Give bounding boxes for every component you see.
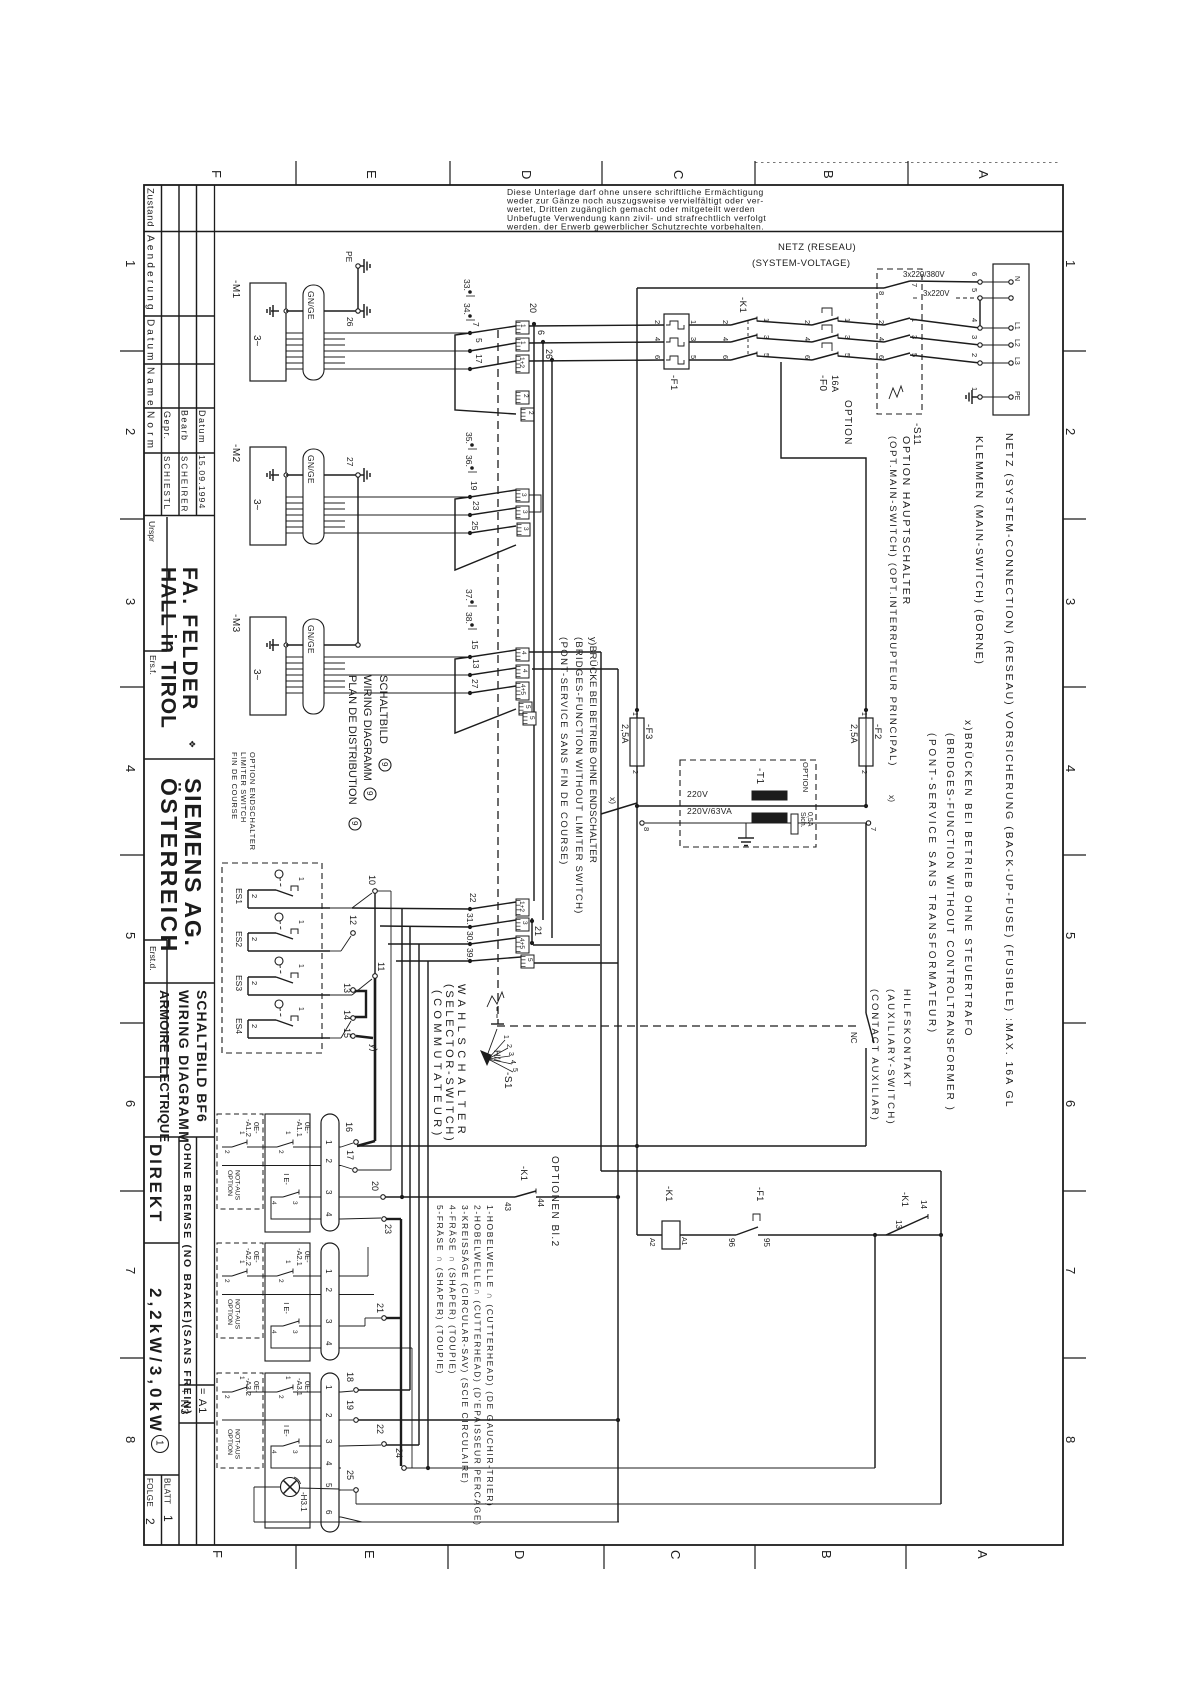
-A1.2 contact — [222, 1146, 232, 1148]
svg-text:20: 20 — [528, 303, 538, 313]
svg-text:2: 2 — [223, 1395, 230, 1399]
svg-text:3: 3 — [1063, 598, 1078, 605]
terminal bar 1 — [516, 321, 529, 334]
svg-text:HALL in TIROL: HALL in TIROL — [157, 567, 180, 729]
limit switch ES1 — [275, 870, 283, 878]
svg-text:werden. der Erwerb gewerbliche: werden. der Erwerb gewerblicher Schutzre… — [506, 221, 764, 231]
node 10 — [373, 889, 378, 894]
svg-text:Norm: Norm — [145, 411, 156, 452]
svg-text:2: 2 — [1063, 428, 1078, 435]
terminal bar 5 — [523, 712, 536, 725]
svg-text:12: 12 — [348, 915, 358, 925]
svg-text:14: 14 — [919, 1200, 928, 1209]
svg-text:4: 4 — [270, 1330, 277, 1334]
terminal 5 — [978, 296, 982, 300]
svg-text:7: 7 — [869, 827, 878, 831]
svg-text:Datum: Datum — [145, 319, 156, 363]
wires F0 to S11 — [838, 321, 884, 325]
svg-text:2: 2 — [522, 394, 529, 398]
svg-text:4: 4 — [653, 337, 662, 341]
svg-text:FIN DE COURSE: FIN DE COURSE — [230, 752, 239, 820]
svg-text:OPTION: OPTION — [226, 1299, 233, 1325]
svg-text:1: 1 — [519, 324, 526, 328]
M3 switch blades — [470, 650, 516, 657]
circled 1 — [152, 1436, 169, 1453]
svg-text:13: 13 — [894, 1220, 903, 1229]
svg-text:E: E — [364, 170, 379, 179]
svg-text:-A1.1: -A1.1 — [295, 1119, 304, 1137]
svg-text:FA. FELDER: FA. FELDER — [178, 567, 201, 712]
selector blades — [470, 902, 516, 909]
limit switch ES4 — [275, 1000, 283, 1008]
svg-text:1: 1 — [860, 712, 867, 716]
svg-text:-K1: -K1 — [737, 297, 748, 313]
GN/GE earth capsule — [303, 619, 324, 714]
svg-text:NOT-AUS: NOT-AUS — [234, 1299, 241, 1330]
svg-text:8: 8 — [877, 291, 886, 295]
svg-text:Sich.: Sich. — [799, 812, 806, 828]
thick bus 11 down to 16 — [374, 978, 377, 1141]
strip1 pin wires + nodes — [341, 1143, 353, 1147]
svg-text:2: 2 — [324, 1159, 333, 1164]
svg-text:L2: L2 — [1013, 339, 1020, 347]
svg-text:9: 9 — [380, 762, 389, 767]
wire N drop to F3 — [636, 288, 638, 708]
terminal L1 — [978, 326, 982, 330]
wire L3 drop to F2 — [781, 362, 866, 708]
M1 switch blades — [470, 326, 516, 333]
GN/GE earth capsule — [303, 449, 324, 544]
svg-text:GN/GE: GN/GE — [306, 625, 316, 654]
svg-text:2: 2 — [123, 428, 138, 435]
fuse F3 — [630, 718, 644, 766]
svg-text:OHNE BREMSE (NO BRAKE)(SANS FR: OHNE BREMSE (NO BRAKE)(SANS FREIN) — [181, 1143, 193, 1415]
svg-text:0E-: 0E- — [252, 1122, 261, 1134]
option module dashed box -A2.2 — [217, 1243, 263, 1338]
svg-text:2: 2 — [277, 1395, 284, 1399]
svg-text:y)BRÜCKE BEI BETRIEB OHNE ENDS: y)BRÜCKE BEI BETRIEB OHNE ENDSCHALTER — [587, 637, 598, 863]
svg-text:31.: 31. — [465, 913, 475, 925]
svg-text:OPTION: OPTION — [842, 400, 853, 446]
svg-text:A: A — [975, 1550, 990, 1559]
svg-text:6: 6 — [721, 355, 730, 359]
svg-text:2,2kW/3,0kW: 2,2kW/3,0kW — [146, 1288, 165, 1435]
-A2.1 contact — [267, 1275, 277, 1277]
svg-text:23: 23 — [383, 1224, 393, 1234]
svg-text:-F2: -F2 — [872, 724, 883, 740]
thick link 13-14 — [355, 991, 366, 1017]
svg-text:-A3.1: -A3.1 — [295, 1378, 304, 1396]
svg-text:2: 2 — [250, 894, 259, 898]
svg-text:N: N — [1013, 276, 1020, 281]
svg-text:2: 2 — [143, 1518, 157, 1525]
svg-text:A1: A1 — [680, 1237, 687, 1246]
svg-text:3: 3 — [507, 1052, 514, 1056]
motor -M1 lead bundle — [286, 332, 303, 334]
svg-text:4: 4 — [270, 1201, 277, 1205]
svg-text:0,5A: 0,5A — [806, 812, 813, 827]
connector strip 3 — [321, 1373, 339, 1532]
svg-text:Datum: Datum — [197, 410, 207, 444]
svg-text:I E-: I E- — [282, 1302, 291, 1314]
svg-text:2: 2 — [803, 320, 812, 324]
svg-text:FOLGE: FOLGE — [145, 1478, 154, 1507]
svg-text:1: 1 — [324, 1140, 333, 1145]
svg-text:= A1: = A1 — [196, 1388, 208, 1414]
svg-text:1: 1 — [297, 964, 304, 968]
svg-text:1: 1 — [238, 1260, 245, 1264]
svg-text:4: 4 — [521, 669, 528, 673]
svg-text:34.: 34. — [462, 303, 472, 315]
svg-text:35.: 35. — [464, 432, 474, 444]
svg-text:-F1: -F1 — [755, 1187, 765, 1202]
circles 13 14 15 — [351, 988, 356, 993]
svg-text:5: 5 — [970, 288, 979, 292]
svg-text:26: 26 — [544, 349, 554, 359]
terminal bar 5 — [519, 702, 532, 715]
svg-text:ÖSTERREICH: ÖSTERREICH — [156, 778, 182, 954]
main switch S11 dashed box — [877, 269, 922, 414]
selector spring — [487, 992, 504, 1007]
svg-text:NOT-AUS: NOT-AUS — [234, 1170, 241, 1201]
svg-text:16: 16 — [344, 1122, 354, 1132]
left margin ticks — [120, 350, 144, 352]
svg-text:-H3.1: -H3.1 — [299, 1492, 308, 1512]
svg-text:-M1: -M1 — [230, 280, 241, 299]
dashed link line (bruecke) — [497, 330, 499, 1024]
selector feed drops — [401, 908, 403, 1197]
svg-text:15.09.1994: 15.09.1994 — [197, 455, 207, 510]
wire 27 to M3 earth — [357, 478, 359, 644]
motor -M3 — [250, 617, 286, 715]
-A1.1 contact — [267, 1146, 277, 1148]
svg-text:0E-: 0E- — [252, 1251, 261, 1263]
svg-text:OPTIONEN Bl.2: OPTIONEN Bl.2 — [549, 1156, 560, 1248]
svg-text:-S1: -S1 — [502, 1072, 513, 1089]
svg-text:7: 7 — [1063, 1267, 1078, 1274]
N wire to S11 — [637, 287, 884, 289]
bottom margin ticks — [295, 1545, 297, 1569]
GN/GE earth capsule — [303, 285, 324, 380]
title block table — [214, 185, 216, 1545]
breaker F0 16A OPTION — [812, 318, 838, 325]
svg-text:10: 10 — [367, 875, 377, 885]
svg-text:38.: 38. — [464, 612, 474, 624]
svg-text:4: 4 — [970, 318, 979, 322]
svg-text:2: 2 — [223, 1279, 230, 1283]
svg-text:3x220/380V: 3x220/380V — [903, 270, 945, 279]
svg-text:(AUXILIARY-SWITCH): (AUXILIARY-SWITCH) — [885, 989, 896, 1126]
svg-text:Name: Name — [145, 367, 156, 410]
node 24 junction — [426, 1466, 430, 1470]
option module box -A3.1 — [265, 1373, 310, 1528]
M2 bridge loop — [455, 497, 516, 570]
bus wire 26 — [551, 360, 553, 938]
faint margin dashed line — [755, 162, 1058, 164]
svg-text:0E-: 0E- — [252, 1381, 261, 1393]
rail 19 — [358, 1419, 618, 1421]
terminal bar 2 — [521, 408, 534, 421]
wire 2 through — [222, 1294, 321, 1296]
svg-text:x)BRÜCKEN BEI BETRIEB OHNE STE: x)BRÜCKEN BEI BETRIEB OHNE STEUERTRAFO — [962, 720, 974, 1038]
svg-text:GN/GE: GN/GE — [306, 455, 316, 484]
wire PE to 26 — [357, 269, 359, 310]
svg-text:3x220V: 3x220V — [923, 289, 950, 298]
terminal bar 1+2 — [516, 355, 529, 373]
svg-text:4: 4 — [721, 337, 730, 341]
svg-text:2: 2 — [277, 1150, 284, 1154]
svg-text:0E-: 0E- — [303, 1251, 312, 1263]
svg-text:SCHALTBILD: SCHALTBILD — [377, 675, 389, 744]
svg-text:9: 9 — [350, 821, 359, 826]
svg-text:3: 3 — [521, 921, 528, 925]
lamp wires — [300, 1488, 340, 1489]
dashed coupling selector to NC — [497, 1025, 860, 1027]
alt voltage dashed wire — [913, 297, 920, 299]
svg-text:0E-: 0E- — [303, 1122, 312, 1134]
svg-text:1: 1 — [297, 877, 304, 881]
svg-text:1: 1 — [297, 920, 304, 924]
svg-text:36.: 36. — [464, 455, 474, 467]
svg-text:2: 2 — [631, 770, 638, 774]
svg-text:220V/63VA: 220V/63VA — [687, 806, 732, 816]
terminal bar 3 — [517, 523, 530, 536]
svg-text:0E-: 0E- — [303, 1381, 312, 1393]
svg-text:I E-: I E- — [282, 1173, 291, 1185]
right margin ticks — [1063, 350, 1086, 352]
terminal bar 5 — [521, 955, 534, 968]
svg-text:13: 13 — [471, 659, 481, 669]
svg-text:1: 1 — [519, 341, 526, 345]
wires K1 to F0 — [757, 321, 812, 325]
svg-text:5: 5 — [324, 1483, 333, 1488]
svg-text:1: 1 — [631, 712, 638, 716]
svg-text:8: 8 — [1063, 1436, 1078, 1443]
svg-text:|44: |44 — [536, 1196, 545, 1208]
svg-text:Urspr: Urspr — [147, 521, 157, 542]
svg-text:15: 15 — [470, 640, 480, 650]
K1 coil branch — [636, 806, 638, 1146]
svg-text:220V: 220V — [687, 789, 708, 799]
svg-text:(SELECTOR-SWITCH): (SELECTOR-SWITCH) — [443, 984, 455, 1143]
svg-text:2: 2 — [721, 320, 730, 324]
svg-text:A: A — [976, 170, 991, 179]
node 12 — [351, 931, 356, 936]
svg-text:KLEMMEN (MAIN-SWITCH) (BORNE): KLEMMEN (MAIN-SWITCH) (BORNE) — [973, 436, 985, 666]
connector strip 2 — [321, 1243, 339, 1360]
terminal bar 3 — [516, 918, 529, 931]
svg-text:3: 3 — [291, 1450, 298, 1454]
svg-text:6: 6 — [123, 1100, 138, 1107]
svg-text:C: C — [668, 1550, 683, 1559]
frame band line under copyright strip — [215, 231, 1064, 233]
svg-text:25: 25 — [345, 1470, 355, 1480]
M3 earth node — [356, 643, 360, 647]
long bus M3/5 — [617, 669, 619, 1522]
svg-text:4+5: 4+5 — [518, 938, 525, 949]
svg-text:4: 4 — [1063, 765, 1078, 772]
strip3 pin wires + nodes — [341, 1391, 353, 1392]
bus wire 6 — [542, 342, 544, 920]
option module box -A2.1 — [265, 1243, 310, 1361]
thick link 15 — [356, 1036, 373, 1038]
T1 secondary fuse Sich 0,5A — [791, 814, 798, 834]
selector pivot tick — [491, 1023, 504, 1025]
secondary wire 220V/63VA — [645, 822, 866, 824]
terminal N — [978, 280, 982, 284]
terminal PE — [978, 395, 982, 399]
svg-text:4: 4 — [803, 337, 812, 341]
motor -M2 phase wires — [345, 496, 470, 498]
M3 junction dots — [468, 655, 472, 659]
PE earth at terminal — [972, 396, 978, 398]
svg-text:1: 1 — [297, 1007, 304, 1011]
svg-text:27: 27 — [345, 457, 355, 467]
svg-text:11: 11 — [376, 962, 386, 971]
svg-text:3-KREISSÄGE (CIRCULAR-SAV): 3-KREISSÄGE (CIRCULAR-SAV) (SCIE CIRCULA… — [460, 1205, 470, 1484]
svg-text:14: 14 — [342, 1010, 352, 1020]
terminal bar 4+5 — [516, 936, 529, 953]
svg-text:L3: L3 — [1013, 357, 1020, 365]
option module dashed box -A1.2 — [217, 1114, 263, 1209]
top margin ticks — [295, 161, 297, 185]
terminal bar 4+5 — [516, 682, 529, 700]
ES dashed box — [222, 863, 322, 1053]
svg-text:1: 1 — [1063, 260, 1078, 267]
motor -M2 lead bundle — [286, 496, 303, 498]
svg-text:2: 2 — [223, 1150, 230, 1154]
terminal bar 3 — [516, 506, 529, 519]
svg-text:2: 2 — [250, 1024, 259, 1028]
svg-text:3: 3 — [291, 1201, 298, 1205]
svg-text:Aenderung: Aenderung — [145, 235, 156, 313]
svg-text:5: 5 — [528, 716, 535, 720]
svg-text:3: 3 — [522, 527, 529, 531]
thin bus 10-11 — [374, 893, 376, 974]
svg-text:4: 4 — [509, 1060, 516, 1064]
selector junction dots — [468, 907, 472, 911]
svg-text:4+5: 4+5 — [519, 684, 526, 695]
svg-text:1-HOBELWELLE ∩ (CUTTERHEAD): 1-HOBELWELLE ∩ (CUTTERHEAD) (DE GAUCHIR-… — [485, 1205, 495, 1507]
svg-text:6: 6 — [970, 272, 979, 276]
selector feed wires — [352, 908, 470, 909]
wires F1 to K1 — [689, 324, 731, 326]
svg-text:4-FRÄSE ∩ (SHAPER): 4-FRÄSE ∩ (SHAPER) (TOUPIE) — [448, 1205, 458, 1375]
strip2 pin wires — [341, 1275, 368, 1277]
rail 18 — [358, 1389, 410, 1391]
svg-text:Bearb: Bearb — [180, 410, 190, 442]
wire 2 through — [222, 1165, 321, 1167]
svg-text:-T1: -T1 — [754, 768, 765, 785]
svg-text:ES2: ES2 — [234, 931, 244, 947]
node 11 — [373, 974, 378, 979]
svg-text:(SYSTEM-VOLTAGE): (SYSTEM-VOLTAGE) — [752, 258, 850, 269]
svg-text:5: 5 — [689, 355, 698, 359]
svg-text:Ers.f.: Ers.f. — [148, 655, 158, 675]
svg-text:-A3.2: -A3.2 — [244, 1378, 253, 1396]
wire 2 through — [222, 1419, 321, 1421]
svg-text:1: 1 — [284, 1376, 291, 1380]
svg-text:3: 3 — [123, 598, 138, 605]
svg-text:(COMMUTATEUR): (COMMUTATEUR) — [431, 990, 443, 1140]
selector bar links to trunks — [533, 944, 600, 946]
svg-text:1: 1 — [324, 1269, 333, 1274]
svg-text:SCHIESTL: SCHIESTL — [162, 456, 171, 511]
bus wire 20 — [533, 324, 535, 901]
svg-text:SCHEIRER: SCHEIRER — [180, 456, 189, 513]
svg-text:3: 3 — [291, 1330, 298, 1334]
svg-text:6: 6 — [877, 355, 886, 359]
svg-text:2-HOBELWELLE∩ (CUTTERHEAD) (: 2-HOBELWELLE∩ (CUTTERHEAD) (D’EPAISSEUR … — [473, 1205, 483, 1527]
-A3.2 contact — [222, 1391, 232, 1393]
svg-text:HILFSKONTAKT: HILFSKONTAKT — [901, 989, 912, 1089]
svg-text:4: 4 — [324, 1341, 333, 1346]
svg-text:(OPT.MAIN-SWITCH) (OPT.INTERRU: (OPT.MAIN-SWITCH) (OPT.INTERRUPTEUR PRIN… — [887, 436, 898, 767]
svg-text:SCHALTBILD BF6: SCHALTBILD BF6 — [194, 990, 210, 1123]
svg-text:OPTION ENDSCHALTER: OPTION ENDSCHALTER — [248, 752, 257, 851]
svg-text:33.: 33. — [462, 279, 472, 291]
svg-text:(PONT-SERVICE SANS TRANSFORMAT: (PONT-SERVICE SANS TRANSFORMATEUR) — [926, 733, 937, 1035]
svg-text:21: 21 — [375, 1303, 385, 1313]
svg-text:-F3: -F3 — [643, 724, 654, 740]
svg-text:9: 9 — [365, 791, 374, 796]
svg-text:1: 1 — [161, 1515, 175, 1522]
earth node 26 — [356, 309, 360, 313]
control return rail — [357, 1145, 866, 1147]
svg-text:19: 19 — [469, 481, 479, 491]
svg-text:NC: NC — [849, 1032, 858, 1044]
bottom rails — [406, 1467, 875, 1469]
svg-text:OPTION: OPTION — [801, 762, 810, 793]
transformer T1 dashed box — [680, 760, 816, 847]
S11 contacts — [884, 281, 910, 288]
svg-text:8: 8 — [123, 1436, 138, 1443]
primary wire 220V — [637, 805, 866, 807]
svg-text:13: 13 — [342, 983, 352, 993]
fuse F2 — [859, 718, 873, 766]
svg-text:3: 3 — [324, 1439, 333, 1444]
svg-text:2: 2 — [250, 937, 259, 941]
control loop verticals — [874, 1235, 876, 1468]
svg-text:3~: 3~ — [251, 669, 262, 681]
svg-text:2: 2 — [970, 353, 979, 357]
terminal bar 2 — [516, 391, 529, 404]
svg-text:19: 19 — [345, 1400, 355, 1410]
svg-text:(BRIDGES-FUNCTION WITHOUT LIMI: (BRIDGES-FUNCTION WITHOUT LIMITER SWITCH… — [573, 637, 584, 915]
motor -M2 — [250, 447, 286, 545]
svg-text:ES4: ES4 — [234, 1018, 244, 1034]
M3 bar link to long buses — [529, 651, 601, 653]
svg-text:y): y) — [369, 1044, 379, 1052]
connector strip 1 — [321, 1114, 339, 1231]
svg-text:H//: H// — [492, 1050, 502, 1062]
K1 aux contact 13 14 — [886, 1216, 928, 1235]
svg-text:4: 4 — [270, 1450, 277, 1454]
svg-text:-M2: -M2 — [230, 444, 241, 463]
svg-text:1: 1 — [123, 260, 138, 267]
terminal bar 3 — [516, 489, 529, 502]
motor -M1 phase wires — [345, 332, 470, 334]
svg-text:3: 3 — [324, 1190, 333, 1195]
svg-text:OPTION: OPTION — [226, 1429, 233, 1455]
M1 junction dots — [468, 331, 472, 335]
svg-text:ARMOIRE ELECTRIQUE: ARMOIRE ELECTRIQUE — [157, 990, 172, 1143]
svg-text:5-FRÄSE ∩ (SHAPER): 5-FRÄSE ∩ (SHAPER) (TOUPIE) — [435, 1205, 445, 1375]
svg-text:ES3: ES3 — [234, 975, 244, 991]
svg-text:96: 96 — [727, 1238, 736, 1247]
terminal block KLEMMEN — [993, 264, 1029, 415]
svg-text:24: 24 — [394, 1448, 404, 1458]
